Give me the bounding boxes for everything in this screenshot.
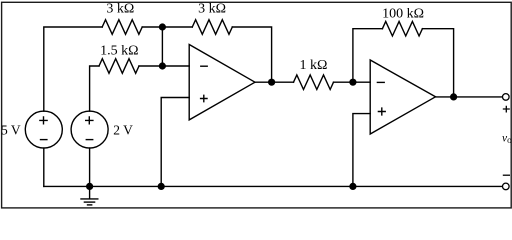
resistor R5 100 kOhm	[382, 21, 422, 36]
resistor R3 1.5 kOhm	[99, 59, 139, 74]
wire R3 to U1 inverting input	[139, 65, 189, 67]
resistor R4 1 kOhm	[294, 75, 334, 90]
wire 2V riser	[90, 66, 99, 111]
svg-text:5 V: 5 V	[1, 122, 21, 137]
node U2 plus return junction dot	[349, 183, 356, 190]
node B junction dot (U1 inverting)	[159, 62, 166, 69]
voltage source V1 5V	[25, 111, 62, 148]
svg-text:2 V: 2 V	[113, 123, 133, 138]
label output plus sign	[503, 106, 510, 113]
node U1 output junction dot	[268, 79, 275, 86]
wire node C up to feedback 2	[353, 29, 383, 82]
voltage source V2 2V	[71, 111, 108, 148]
wire R2 to feedback corner	[232, 27, 271, 82]
svg-text:1.5 kΩ: 1.5 kΩ	[100, 44, 138, 59]
node C junction dot (U2 inverting)	[349, 79, 356, 86]
svg-text:3 kΩ: 3 kΩ	[198, 2, 226, 17]
U1 plus sign	[201, 95, 207, 101]
wire R1 to node A	[142, 26, 192, 28]
wire U2 output to terminal	[436, 96, 503, 98]
wire bottom rail	[44, 185, 503, 187]
svg-text:100 kΩ: 100 kΩ	[382, 6, 424, 21]
resistor R1 3 kOhm	[102, 20, 142, 35]
ground	[80, 186, 98, 205]
wire U1 output to R4	[255, 81, 294, 83]
wire node A down to inverting node B	[161, 27, 163, 66]
label output minus sign	[503, 174, 510, 176]
op-amp U2	[370, 60, 435, 134]
wire R5 down to U2 output	[422, 29, 453, 97]
wire 2V bottom drop	[89, 148, 91, 186]
resistor R2 3 kOhm	[192, 20, 232, 35]
node U2 output junction dot	[450, 93, 457, 100]
wire 5V riser to top rail	[44, 27, 102, 111]
op-amp U1	[189, 45, 255, 120]
node U1 plus return junction dot	[158, 183, 165, 190]
wire U2 noninverting return	[353, 114, 370, 187]
output terminal plus	[503, 94, 510, 101]
wire R4 to U2 inverting input	[334, 81, 371, 83]
node A junction dot	[159, 23, 166, 30]
wire 5V bottom drop	[43, 148, 45, 186]
svg-text:1 kΩ: 1 kΩ	[300, 58, 328, 73]
U2 plus sign	[378, 108, 385, 115]
wire U1 noninverting return	[161, 98, 189, 187]
node ground junction dot	[86, 183, 93, 190]
U1 minus sign	[201, 65, 207, 67]
U2 minus sign	[377, 81, 384, 83]
output terminal minus	[503, 183, 510, 190]
svg-text:vo: vo	[502, 132, 512, 145]
svg-text:3 kΩ: 3 kΩ	[106, 2, 134, 17]
